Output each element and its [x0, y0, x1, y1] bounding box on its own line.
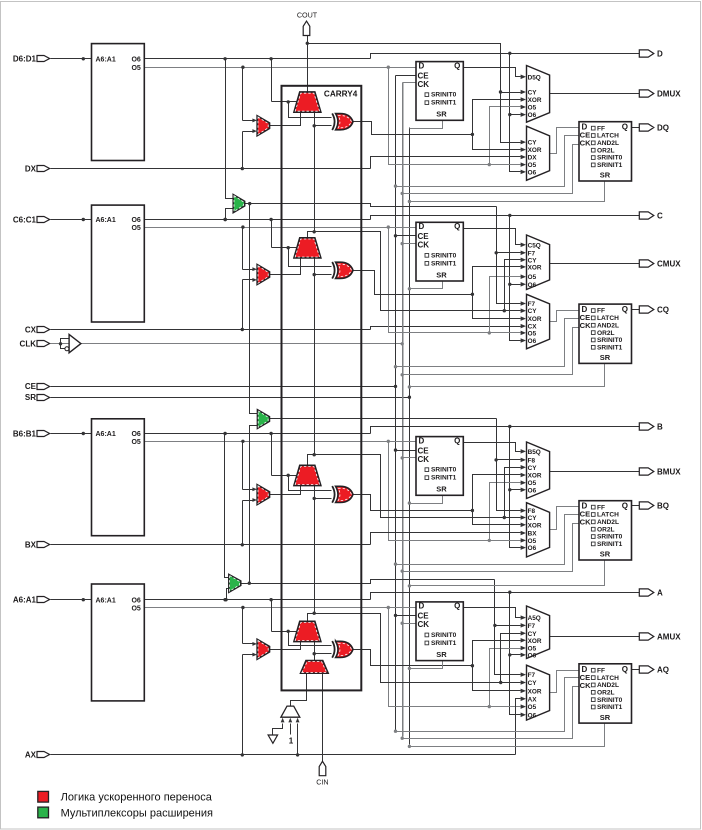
svg-text:CY: CY	[528, 140, 538, 147]
svg-text:O5: O5	[131, 605, 140, 612]
svg-text:LATCH: LATCH	[597, 315, 619, 322]
net BX	[51, 544, 371, 546]
svg-text:SRINIT1: SRINIT1	[431, 100, 457, 107]
LUT D6:D1 (A6:A1)	[92, 44, 145, 161]
XOR bus row B	[473, 475, 521, 525]
carry tap row A	[308, 614, 501, 683]
svg-text:Q: Q	[622, 665, 628, 674]
svg-text:B: B	[657, 422, 663, 431]
wire DFF Q to DQ pin	[632, 127, 640, 129]
svg-text:O6: O6	[528, 112, 537, 119]
output pin CMUX	[639, 260, 654, 267]
svg-text:CY: CY	[528, 90, 538, 97]
svg-text:DX: DX	[528, 155, 538, 162]
svg-text:DX: DX	[25, 164, 37, 173]
svg-text:BX: BX	[528, 531, 538, 538]
bypass mux O5/CX row C	[257, 265, 269, 285]
output mux AMUX	[527, 606, 550, 659]
svg-text:SR: SR	[600, 713, 611, 722]
wire CX to C bypass mux	[242, 280, 244, 330]
wire C O6 to F7MUX bottom	[226, 209, 234, 220]
svg-text:XOR: XOR	[528, 638, 542, 645]
O5 drop row C	[389, 228, 521, 333]
XOR gate row B	[332, 486, 334, 503]
LUT B6:B1 (A6:A1)	[92, 419, 145, 536]
svg-text:SR: SR	[436, 650, 447, 659]
O6 select feed row C	[271, 220, 273, 248]
output pin A	[639, 589, 654, 596]
svg-text:CQ: CQ	[657, 305, 669, 314]
wire AFF Q to AQ pin	[632, 669, 640, 671]
wire F7MUX to F8MUX top input	[250, 204, 258, 414]
bypass mux output to carry mux row A	[270, 642, 301, 650]
CLK tap to C5FF	[403, 243, 417, 245]
CLK polarity buffer	[59, 342, 62, 345]
output mux CMUX	[527, 235, 550, 290]
CLK hook row B	[403, 524, 579, 572]
svg-text:AX: AX	[25, 751, 37, 760]
CARRY4 block	[282, 86, 362, 691]
svg-text:XOR: XOR	[528, 316, 542, 323]
svg-text:D: D	[419, 436, 425, 445]
CE tap to B5FF	[396, 450, 417, 452]
svg-text:1: 1	[289, 737, 294, 746]
svg-text:SRINIT0: SRINIT0	[597, 534, 623, 541]
svg-text:SRINIT1: SRINIT1	[597, 541, 623, 548]
net O6 row B	[145, 433, 371, 435]
wire CX rise arrow extras	[242, 329, 244, 331]
svg-text:SR: SR	[436, 485, 447, 494]
carry chain vertical C to next stage	[314, 113, 316, 232]
svg-text:CARRY4: CARRY4	[324, 90, 358, 99]
svg-text:OR2L: OR2L	[597, 526, 615, 533]
XOR bus row A	[473, 641, 521, 691]
carry mux MUXCY row A	[294, 621, 321, 641]
O6 select feed row B	[271, 434, 273, 476]
svg-text:SRINIT1: SRINIT1	[431, 260, 457, 267]
storage element C5FF	[416, 222, 463, 281]
wire F7MUX lower to F8MUX bottom input	[250, 426, 258, 584]
CLK hook row C	[403, 328, 579, 375]
bypass mux output to carry mux row C	[270, 258, 301, 275]
svg-text:CY: CY	[528, 465, 538, 472]
XOR gate row C	[332, 262, 334, 279]
net DX	[51, 168, 371, 170]
XOR output route row A	[353, 650, 473, 666]
svg-text:CIN: CIN	[316, 778, 328, 787]
wire O5 to bypass mux row C	[242, 228, 244, 270]
svg-text:SR: SR	[600, 353, 611, 362]
CLK tap to A5FF	[403, 623, 417, 625]
LUT C6:C1 (A6:A1)	[92, 205, 145, 322]
svg-text:O6: O6	[528, 487, 537, 494]
wire O6 to C output	[371, 216, 640, 220]
bypass mux output to carry mux row D	[270, 113, 301, 126]
svg-text:O5: O5	[528, 330, 537, 337]
svg-text:XOR: XOR	[528, 264, 542, 271]
O6 to XOR feed row D	[289, 102, 332, 118]
output mux BMUX	[527, 442, 550, 499]
wire mux2 output to DFF D input	[550, 128, 579, 154]
storage element B5FF	[416, 437, 463, 496]
wire BFF Q to BQ pin	[632, 505, 640, 507]
CY bus row C	[505, 260, 521, 311]
svg-text:A5Q: A5Q	[528, 615, 541, 622]
wire O5 to bypass mux row B	[242, 442, 244, 490]
svg-text:O6: O6	[131, 56, 140, 63]
svg-text:D6:D1: D6:D1	[13, 55, 37, 64]
CYINIT select mux	[281, 706, 300, 717]
svg-text:CMUX: CMUX	[657, 259, 681, 268]
svg-text:Q: Q	[454, 61, 460, 70]
svg-text:SRINIT0: SRINIT0	[431, 467, 457, 474]
svg-text:OR2L: OR2L	[597, 147, 615, 154]
LUT A6:A1 (A6:A1)	[92, 584, 145, 701]
F7MUX upper output net	[245, 204, 497, 207]
svg-text:O5: O5	[131, 225, 140, 232]
carry chain vertical A to next stage	[314, 485, 316, 614]
svg-text:Q: Q	[622, 502, 628, 511]
svg-text:SR: SR	[600, 171, 611, 180]
svg-text:LATCH: LATCH	[597, 512, 619, 519]
svg-text:FF: FF	[597, 125, 605, 132]
svg-text:DMUX: DMUX	[657, 89, 681, 98]
wire mux1 output to CMUX pin	[550, 263, 640, 265]
wire C5FF Q to C5Q mux input	[464, 229, 521, 245]
svg-text:O6: O6	[528, 545, 537, 552]
CLK hook row D	[403, 145, 579, 194]
svg-text:D: D	[419, 602, 425, 611]
svg-text:SRINIT0: SRINIT0	[597, 155, 623, 162]
svg-text:SRINIT1: SRINIT1	[597, 704, 623, 711]
svg-text:FF: FF	[597, 667, 605, 674]
wire AX to select mux	[297, 724, 299, 755]
carry mux MUXCY row D	[294, 92, 321, 112]
F7 bus row C	[497, 207, 521, 304]
svg-text:SRINIT0: SRINIT0	[431, 632, 457, 639]
svg-text:BX: BX	[25, 541, 37, 550]
svg-text:LATCH: LATCH	[597, 133, 619, 140]
XOR bus row D	[473, 100, 521, 150]
svg-text:CK: CK	[580, 139, 591, 148]
wire D O6 to F7MUX top	[226, 59, 234, 199]
wire mux2 output to BFF D input	[550, 507, 579, 530]
svg-text:SR: SR	[25, 393, 36, 402]
F8MUX output net	[270, 418, 497, 420]
CE tap to C5FF	[396, 235, 417, 237]
SR bus vertical	[409, 128, 411, 745]
svg-text:D: D	[419, 222, 425, 231]
wire O6 to D output	[371, 54, 640, 59]
output mux to DFF	[527, 126, 550, 180]
svg-text:O6: O6	[528, 338, 537, 345]
carry chain vertical B to next stage	[314, 259, 316, 455]
wire CYINIT select mux output	[291, 674, 307, 707]
bypass mux lower input arrow row D	[243, 131, 253, 133]
carry tap row B	[308, 455, 505, 518]
wire mux2 output to AFF D input	[550, 671, 579, 693]
svg-text:XOR: XOR	[528, 97, 542, 104]
wire B O6 to F7MUX2 top	[225, 434, 229, 578]
svg-text:O6: O6	[528, 652, 537, 659]
carry mux MUXCY row C	[294, 238, 321, 258]
SR hook row A	[410, 723, 605, 747]
output mux DMUX	[527, 66, 550, 123]
svg-text:A: A	[657, 588, 663, 597]
svg-text:B5Q: B5Q	[528, 449, 541, 456]
svg-text:O6: O6	[131, 217, 140, 224]
svg-text:Q: Q	[454, 436, 460, 445]
carry to XOR branch row B	[313, 497, 316, 500]
wire BX to B bypass mux	[242, 501, 244, 545]
net B6:B1 input line	[51, 433, 92, 435]
svg-text:O5: O5	[131, 439, 140, 446]
wire D5FF Q to D5Q mux input	[464, 68, 521, 77]
svg-text:A6:A1: A6:A1	[96, 597, 116, 604]
svg-text:LATCH: LATCH	[597, 675, 619, 682]
net O5 row D	[145, 67, 417, 69]
svg-text:SR: SR	[436, 110, 447, 119]
svg-text:SR: SR	[436, 270, 447, 279]
svg-text:CLK: CLK	[20, 340, 37, 349]
svg-text:O5: O5	[528, 162, 537, 169]
svg-text:XOR: XOR	[528, 688, 542, 695]
storage element AFF/LATCH	[579, 664, 632, 723]
net O6 row C	[145, 219, 371, 221]
O6 bus row D	[510, 54, 521, 172]
svg-text:F7: F7	[528, 623, 536, 630]
svg-text:COUT: COUT	[297, 11, 318, 20]
storage element A5FF	[416, 602, 463, 661]
wire mux2 output to CFF D input	[550, 311, 579, 322]
svg-text:Логика ускоренного переноса: Логика ускоренного переноса	[61, 792, 213, 804]
svg-text:CK: CK	[580, 321, 591, 330]
svg-text:OR2L: OR2L	[597, 330, 615, 337]
O5 drop row B	[389, 442, 521, 541]
wire O6 to A output	[371, 593, 640, 600]
svg-text:Q: Q	[622, 123, 628, 132]
svg-text:SRINIT0: SRINIT0	[597, 697, 623, 704]
XOR gate row A	[332, 641, 334, 658]
wire mux1 output to DMUX pin	[550, 93, 640, 95]
SR join C5FF	[410, 281, 443, 289]
CY route row D	[308, 44, 521, 143]
carry mux MUXCY row B	[294, 465, 321, 485]
net O5 row C	[145, 227, 417, 229]
svg-text:F8: F8	[528, 457, 536, 464]
O6 bus row B	[510, 427, 521, 548]
carry to XOR branch row C	[313, 273, 316, 276]
SR join D5FF	[410, 121, 443, 129]
expansion mux F8MUX (green)	[257, 410, 269, 429]
output pin DQ	[639, 124, 654, 131]
svg-text:BMUX: BMUX	[657, 467, 681, 476]
bypass mux O5/BX row B	[257, 485, 269, 505]
svg-text:SRINIT1: SRINIT1	[597, 344, 623, 351]
net O6 row A	[145, 599, 371, 601]
wire mux1 output to AMUX pin	[550, 636, 640, 638]
svg-text:O6: O6	[528, 169, 537, 176]
svg-text:AND2L: AND2L	[597, 140, 619, 147]
CE bus vertical	[395, 76, 397, 731]
legend carry logic (red)	[38, 791, 49, 802]
net C6:C1 input line	[51, 219, 92, 221]
CYINIT carry mux	[301, 661, 329, 674]
output mux to AFF	[527, 665, 550, 720]
svg-text:BQ: BQ	[657, 501, 669, 510]
output pin AQ	[639, 666, 654, 673]
wire logic-0 to select mux	[273, 724, 283, 735]
svg-text:B6:B1: B6:B1	[13, 429, 37, 438]
CE hook row A	[396, 678, 579, 732]
svg-text:CK: CK	[580, 518, 591, 527]
svg-text:O5: O5	[131, 65, 140, 72]
svg-text:Мультиплексоры расширения: Мультиплексоры расширения	[61, 807, 213, 819]
svg-text:C: C	[657, 211, 663, 220]
svg-text:D5Q: D5Q	[528, 74, 541, 81]
svg-text:O6: O6	[528, 282, 537, 289]
svg-text:SRINIT0: SRINIT0	[597, 337, 623, 344]
O6 to XOR feed row A	[289, 632, 332, 646]
svg-text:CY: CY	[528, 680, 538, 687]
O6 select feed row D	[271, 59, 273, 102]
svg-text:D: D	[657, 49, 663, 58]
wire CFF Q to CQ pin	[632, 309, 640, 311]
svg-text:A6:A1: A6:A1	[13, 596, 37, 605]
CE tap to A5FF	[396, 615, 417, 617]
net D6:D1 input line	[51, 58, 92, 60]
SR hook row B	[410, 560, 605, 586]
svg-text:C5Q: C5Q	[528, 242, 541, 249]
svg-text:O5: O5	[528, 480, 537, 487]
svg-text:F7: F7	[528, 301, 536, 308]
output mux to CFF	[527, 294, 550, 349]
svg-text:SRINIT1: SRINIT1	[431, 640, 457, 647]
svg-text:CK: CK	[418, 455, 430, 464]
svg-text:SR: SR	[600, 550, 611, 559]
output pin DMUX	[639, 90, 654, 97]
output pin B	[639, 423, 654, 430]
svg-text:O6: O6	[131, 431, 140, 438]
O5 drop row D	[389, 68, 521, 165]
svg-text:XOR: XOR	[528, 522, 542, 529]
XOR bus row C	[473, 267, 521, 319]
svg-text:AND2L: AND2L	[597, 322, 619, 329]
wire mux1 output to BMUX pin	[550, 471, 640, 473]
svg-text:AQ: AQ	[657, 665, 669, 674]
bypass mux O5/DX row D	[257, 116, 269, 136]
svg-text:Q: Q	[622, 305, 628, 314]
svg-text:AMUX: AMUX	[657, 632, 681, 641]
svg-text:O5: O5	[528, 704, 537, 711]
wire B5FF Q to B5Q mux input	[464, 443, 521, 452]
O6 to XOR feed row B	[289, 476, 332, 491]
SR join A5FF	[410, 661, 443, 669]
svg-text:XOR: XOR	[528, 147, 542, 154]
CY bus row B	[505, 468, 521, 518]
net AX	[51, 754, 516, 756]
svg-text:D: D	[419, 61, 425, 70]
O6 select feed row A	[271, 600, 273, 632]
net O6 row D	[145, 58, 371, 60]
net SR	[51, 397, 410, 399]
svg-text:O6: O6	[131, 597, 140, 604]
svg-text:A6:A1: A6:A1	[96, 217, 116, 224]
legend expansion muxes (green)	[38, 807, 49, 818]
storage element CFF/LATCH	[579, 304, 632, 363]
svg-text:A6:A1: A6:A1	[96, 56, 116, 63]
svg-text:CX: CX	[25, 325, 37, 334]
O6 to XOR feed row C	[289, 248, 332, 267]
svg-text:AND2L: AND2L	[597, 519, 619, 526]
wire AX to A bypass mux	[242, 655, 244, 755]
svg-text:O6: O6	[528, 712, 537, 719]
net O5 row B	[145, 441, 417, 443]
CE tap to D5FF	[396, 75, 417, 77]
svg-text:O5: O5	[528, 105, 537, 112]
svg-text:Q: Q	[454, 222, 460, 231]
carry to XOR branch row A	[313, 652, 316, 655]
svg-text:AX: AX	[528, 696, 538, 703]
output pin BQ	[639, 502, 654, 509]
net CLK	[51, 343, 81, 345]
svg-text:DQ: DQ	[657, 123, 669, 132]
svg-text:SRINIT1: SRINIT1	[597, 162, 623, 169]
wire O5 to bypass mux row D	[242, 68, 244, 121]
wire logic-1 to select mux	[290, 724, 292, 735]
bypass mux O5/AX row A	[257, 639, 269, 659]
svg-text:CY: CY	[528, 257, 538, 264]
SR hook row C	[410, 363, 605, 387]
pin CIN	[319, 761, 326, 775]
net CE	[51, 386, 396, 388]
expansion mux F7MUX upper (green)	[233, 195, 245, 213]
output pin CQ	[639, 306, 654, 313]
SR join B5FF	[410, 496, 443, 504]
CLK hook row A	[403, 687, 579, 739]
svg-text:CK: CK	[418, 80, 430, 89]
SR hook row D	[410, 181, 605, 202]
net CIN line	[322, 674, 324, 762]
carry tap row C	[308, 232, 505, 311]
svg-text:CY: CY	[528, 308, 538, 315]
svg-text:OR2L: OR2L	[597, 689, 615, 696]
svg-text:SRINIT0: SRINIT0	[431, 252, 457, 259]
svg-text:CY: CY	[528, 631, 538, 638]
svg-text:A6:A1: A6:A1	[96, 431, 116, 438]
svg-text:F7: F7	[528, 672, 536, 679]
svg-text:FF: FF	[597, 308, 605, 315]
svg-text:C6:C1: C6:C1	[13, 215, 37, 224]
bypass mux lower input arrow row C	[243, 279, 253, 281]
XOR gate row D	[332, 113, 334, 130]
CE hook row B	[396, 515, 579, 565]
output pin C	[639, 212, 654, 219]
CE hook row D	[396, 136, 579, 187]
bypass mux lower input arrow row A	[243, 654, 253, 656]
output mux to BFF	[527, 503, 550, 557]
wire DX to D bypass mux	[242, 132, 244, 169]
output pin D	[639, 50, 654, 57]
O6 bus row C	[510, 216, 521, 341]
CLK tap to B5FF	[403, 457, 417, 459]
O5 drop row A	[389, 608, 521, 707]
CY bus row A	[501, 634, 521, 683]
net CX	[51, 329, 371, 331]
CYINIT output to stage A	[314, 654, 316, 661]
svg-text:Q: Q	[454, 602, 460, 611]
bypass mux output to carry mux row B	[270, 486, 301, 495]
